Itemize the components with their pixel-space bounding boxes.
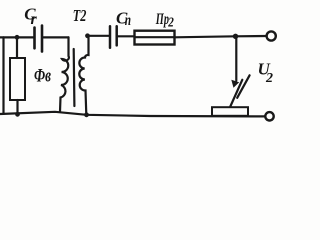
svg-text:T2: T2: [73, 6, 87, 25]
svg-text:2: 2: [265, 71, 273, 86]
svg-text:r: r: [31, 11, 38, 28]
svg-text:Фв: Фв: [34, 66, 51, 87]
svg-text:2: 2: [167, 16, 173, 31]
svg-text:Пр: Пр: [155, 11, 169, 28]
svg-text:п: п: [125, 12, 131, 29]
